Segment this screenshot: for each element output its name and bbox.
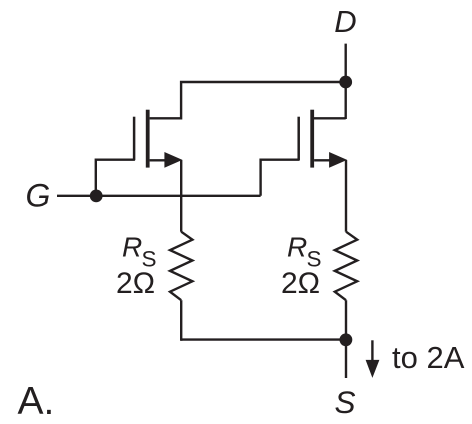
svg-text:A.: A. [18,380,55,423]
wire [181,338,346,340]
svg-text:2Ω: 2Ω [281,267,320,300]
wire [345,160,347,232]
svg-text:2Ω: 2Ω [116,267,155,300]
current arrow to 2A [366,340,380,378]
svg-text:R: R [122,231,142,262]
wire [261,160,300,196]
junction [339,76,352,89]
svg-text:S: S [334,384,355,420]
wire [96,160,135,196]
resistor R1 [170,232,192,301]
wire [345,340,347,378]
wire [180,160,182,232]
transistor Q2 [299,110,347,168]
svg-text:R: R [287,231,307,262]
wire [345,44,347,119]
junction [340,333,353,346]
transistor Q1 [134,110,182,168]
wire [180,300,182,341]
wire [314,117,346,119]
svg-text:G: G [26,178,51,214]
svg-text:D: D [334,4,356,39]
resistor R2 [335,232,357,301]
wire [345,300,347,340]
junction [90,190,103,203]
wire [57,195,261,197]
svg-text:to 2A: to 2A [392,340,465,375]
wire [150,82,346,118]
